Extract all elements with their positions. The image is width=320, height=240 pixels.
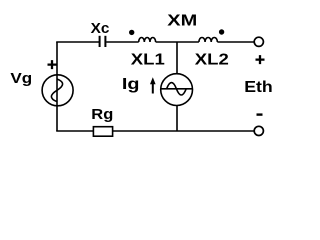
svg-text:Eth: Eth bbox=[244, 79, 273, 96]
svg-text:XM: XM bbox=[167, 12, 197, 29]
current source Ig (circle with sine) bbox=[161, 74, 193, 106]
svg-text:XL2: XL2 bbox=[195, 51, 229, 68]
capacitor Xc plates bbox=[100, 36, 106, 47]
wire: centre branch bottom (source to bottom wire) bbox=[176, 106, 178, 132]
plus sign (output +) bbox=[256, 55, 265, 64]
wire: resistor to bottom-right terminal bbox=[113, 130, 254, 132]
svg-text:Xc: Xc bbox=[91, 20, 110, 37]
source Vg (circle with vertical sine) bbox=[42, 75, 73, 106]
wire: top horizontal from corner to capacitor Xc left plate bbox=[56, 41, 99, 43]
resistor Rg bbox=[93, 127, 112, 137]
svg-text:XL1: XL1 bbox=[131, 51, 165, 68]
plus sign (Vg +) bbox=[48, 60, 57, 69]
wire: XL2 to top-right terminal bbox=[217, 41, 253, 43]
inductor XL1 bbox=[139, 38, 156, 43]
wire: capacitor to inductor XL1 bbox=[106, 41, 139, 43]
wire: XL1 to XL2 across centre junction bbox=[156, 41, 199, 43]
terminal (top right, open circle) bbox=[254, 37, 263, 46]
current direction arrow (Ig) bbox=[150, 77, 156, 93]
wire: centre branch top (junction to source) bbox=[176, 42, 178, 74]
svg-text:Vg: Vg bbox=[10, 70, 32, 87]
inductor XL2 bbox=[199, 37, 217, 42]
wire: bottom left (Vg to resistor Rg) bbox=[56, 130, 93, 132]
wire: left vertical from top-left corner down through Vg to bottom wire bbox=[56, 42, 58, 131]
polarity dot (XL2) bbox=[219, 29, 224, 34]
svg-text:Rg: Rg bbox=[91, 106, 113, 123]
terminal (bottom right, open circle) bbox=[254, 126, 263, 135]
polarity dot (XL1) bbox=[129, 30, 134, 35]
svg-text:Ig: Ig bbox=[122, 76, 140, 93]
minus sign (output -) bbox=[257, 113, 263, 115]
